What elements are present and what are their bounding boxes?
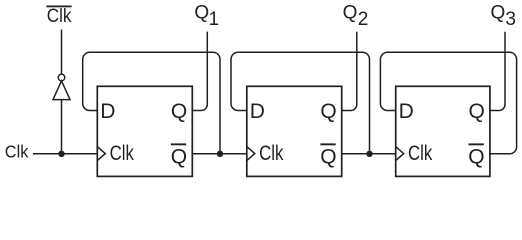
wire Q3 output stem <box>490 32 505 111</box>
svg-text:D: D <box>100 100 115 123</box>
wire feedback loop Q-bar3 to D3 <box>380 52 516 154</box>
svg-text:Clk: Clk <box>110 142 135 165</box>
svg-text:Clk: Clk <box>408 142 433 165</box>
svg-text:Clk: Clk <box>259 142 284 165</box>
D flip-flop U1 box <box>97 86 192 176</box>
net label Q1 <box>194 3 219 31</box>
wire Q-bar2 to Clk3 <box>342 153 396 155</box>
node Clk junction (inverter tap) <box>58 151 64 157</box>
svg-text:Q: Q <box>469 100 485 123</box>
svg-text:Q: Q <box>194 3 209 24</box>
U2 clock edge chevron <box>247 147 255 161</box>
svg-text:Q: Q <box>343 3 358 24</box>
svg-text:1: 1 <box>209 9 220 30</box>
U2 pin label Q-bar <box>320 143 335 145</box>
wire Clk input to FF1 <box>33 153 97 155</box>
svg-text:Clk: Clk <box>5 142 29 162</box>
svg-text:Q: Q <box>491 3 506 24</box>
svg-text:Q: Q <box>320 146 336 169</box>
U3 clock edge chevron <box>396 147 404 161</box>
U3 pin label Q-bar <box>469 143 484 145</box>
svg-text:D: D <box>250 100 265 123</box>
svg-text:Q: Q <box>171 146 187 169</box>
D flip-flop U3 box <box>396 86 490 176</box>
inverter U4 triangle <box>53 81 70 100</box>
wire feedback loop Q-bar1 to D1 <box>83 52 220 154</box>
wire Q1 output stem <box>192 32 207 111</box>
net label Q2 <box>343 3 369 31</box>
U1 pin label Q-bar <box>171 143 186 145</box>
wire Q-bar1 to Clk2 <box>192 153 247 155</box>
net label Clk-bar (inverted clock) <box>46 6 71 28</box>
wire inverter input from Clk node <box>61 100 63 154</box>
svg-text:Q: Q <box>468 146 484 169</box>
wire feedback loop Q-bar2 to D2 <box>231 52 370 154</box>
wire Q2 output stem <box>342 32 357 111</box>
svg-text:2: 2 <box>358 9 369 30</box>
wire Clk-bar label to inverter bubble <box>61 30 63 75</box>
node Q-bar1 junction <box>217 151 223 157</box>
svg-text:D: D <box>399 100 414 123</box>
svg-text:Q: Q <box>171 100 187 123</box>
svg-text:Clk: Clk <box>47 6 72 27</box>
svg-text:3: 3 <box>505 9 516 30</box>
net label Q3 <box>491 3 516 31</box>
svg-text:Q: Q <box>320 100 336 123</box>
node Q-bar2 junction <box>366 151 372 157</box>
inverter U4 bubble <box>58 74 65 81</box>
D flip-flop U2 box <box>247 86 342 176</box>
U1 clock edge chevron <box>97 147 105 161</box>
